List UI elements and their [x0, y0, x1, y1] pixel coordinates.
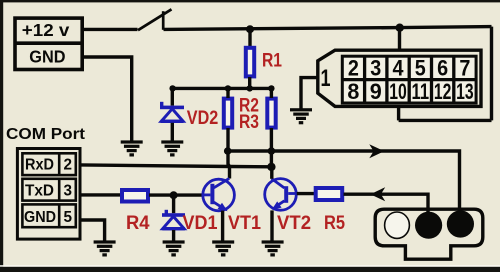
jack connector outline [375, 209, 483, 259]
arrow left (from jack) [370, 187, 385, 201]
COM Port outer box [17, 149, 80, 240]
ground (pin1) [290, 108, 312, 124]
wire RxD line [80, 165, 271, 167]
wire K-line bus to jack [228, 151, 460, 212]
svg-text:TxD: TxD [25, 183, 54, 200]
wire R1 top lead [248, 29, 251, 46]
wire VD2 top lead [171, 88, 174, 105]
svg-text:4: 4 [393, 56, 404, 81]
svg-text:GND: GND [24, 209, 56, 226]
wire VT2 emitter to ground [270, 210, 273, 240]
svg-text:COM Port: COM Port [6, 126, 86, 143]
svg-text:+12 v: +12 v [22, 20, 70, 40]
diode VD1 [162, 210, 185, 231]
wire pin1 to ground [301, 78, 318, 109]
wire VD2 bottom lead [171, 123, 174, 141]
resistor R1 [246, 48, 254, 77]
svg-text:1: 1 [321, 65, 331, 92]
wire VT2 collector lead [270, 167, 273, 179]
svg-text:VT1: VT1 [228, 212, 261, 234]
svg-text:8: 8 [347, 79, 359, 104]
svg-text:13: 13 [456, 79, 474, 104]
wire R1 bottom lead [248, 77, 251, 88]
svg-text:R4: R4 [126, 212, 150, 234]
ground (VT2) [262, 240, 284, 256]
COM row TxD [22, 179, 75, 201]
resistor R4 [122, 190, 148, 202]
resistor R3 [267, 99, 275, 128]
transistor VT2 [265, 179, 298, 211]
COM row GND [22, 204, 75, 227]
svg-text:RxD: RxD [25, 156, 54, 173]
wire R4 to VT1 base [149, 193, 204, 196]
wire right side down [490, 27, 493, 121]
wire R5 to jack [344, 194, 429, 213]
svg-text:3: 3 [370, 56, 381, 81]
ground (VD1) [163, 240, 185, 256]
pin numbers row 1 [348, 56, 471, 81]
diagnostic connector X1 outline [318, 50, 481, 106]
ground (COM GND) [94, 240, 116, 256]
svg-text:5: 5 [415, 56, 426, 81]
resistor R5 [316, 188, 343, 200]
image border [0, 0, 500, 2]
resistor R2 [224, 99, 232, 128]
switch S1 blade [138, 9, 172, 30]
node: junction dot at connector branch [396, 24, 404, 32]
transistor VT1 [203, 178, 235, 211]
svg-text:VT2: VT2 [277, 212, 311, 234]
jack contact black 1 [415, 212, 442, 239]
svg-text:R3: R3 [239, 111, 259, 133]
switch S1 post [162, 11, 165, 30]
svg-text:6: 6 [437, 56, 448, 81]
wire R2 top lead [226, 88, 229, 98]
diode VD2 (zener) [160, 102, 184, 123]
wire TxD line [80, 193, 121, 196]
wire branch into connector top [398, 28, 401, 50]
ground (VT1) [212, 240, 234, 256]
jack contact black 2 [447, 210, 474, 237]
svg-text:GND: GND [29, 46, 65, 66]
wire VD1 top lead [172, 195, 175, 213]
svg-text:10: 10 [389, 79, 407, 104]
wire R2 bottom / VT1 collector vertical [228, 128, 230, 179]
svg-text:7: 7 [459, 56, 470, 81]
box +12v/GND [15, 18, 82, 69]
wire bus R2/R3/VD2 top [172, 87, 271, 90]
svg-text:12: 12 [434, 79, 452, 104]
node dots on top bus [169, 85, 175, 91]
wire stub into connector pin10 [397, 105, 400, 120]
ground (from GND box) [121, 140, 143, 156]
wire VT2 base to R5 [297, 192, 315, 195]
wire GND box to ground [83, 57, 132, 141]
arrow right (to jack) [369, 144, 384, 158]
jack contact white [385, 212, 410, 238]
wire +12v to switch [83, 28, 138, 31]
svg-text:2: 2 [348, 56, 359, 81]
svg-text:2: 2 [64, 156, 73, 173]
connector pin grid [342, 56, 476, 103]
svg-text:9: 9 [370, 79, 382, 104]
svg-text:R5: R5 [324, 212, 345, 234]
wire R3 bottom / VT2 collector vertical [270, 128, 273, 169]
svg-text:11: 11 [412, 79, 430, 104]
COM row RxD [22, 153, 75, 175]
wire switch to connector (top rail) [164, 27, 492, 30]
svg-text:5: 5 [64, 209, 73, 226]
ground (VD2) [161, 140, 183, 156]
svg-text:R1: R1 [262, 49, 282, 71]
wire VD1 bottom lead [172, 230, 175, 241]
pin numbers row 2 [347, 79, 473, 104]
svg-text:3: 3 [64, 183, 73, 200]
node: junction dot at R1 branch [246, 25, 254, 33]
node dot RxD to VT2 collector [267, 163, 275, 171]
wire R3 top lead [270, 88, 273, 98]
node dot VD1 junction [170, 191, 178, 199]
wire VT1 emitter to ground [221, 211, 224, 241]
wire below connector [399, 119, 492, 122]
wire COM GND to ground [80, 220, 105, 241]
node dots on K-line bus [224, 147, 232, 155]
svg-text:VD2: VD2 [187, 107, 219, 129]
svg-text:VD1: VD1 [183, 212, 218, 234]
